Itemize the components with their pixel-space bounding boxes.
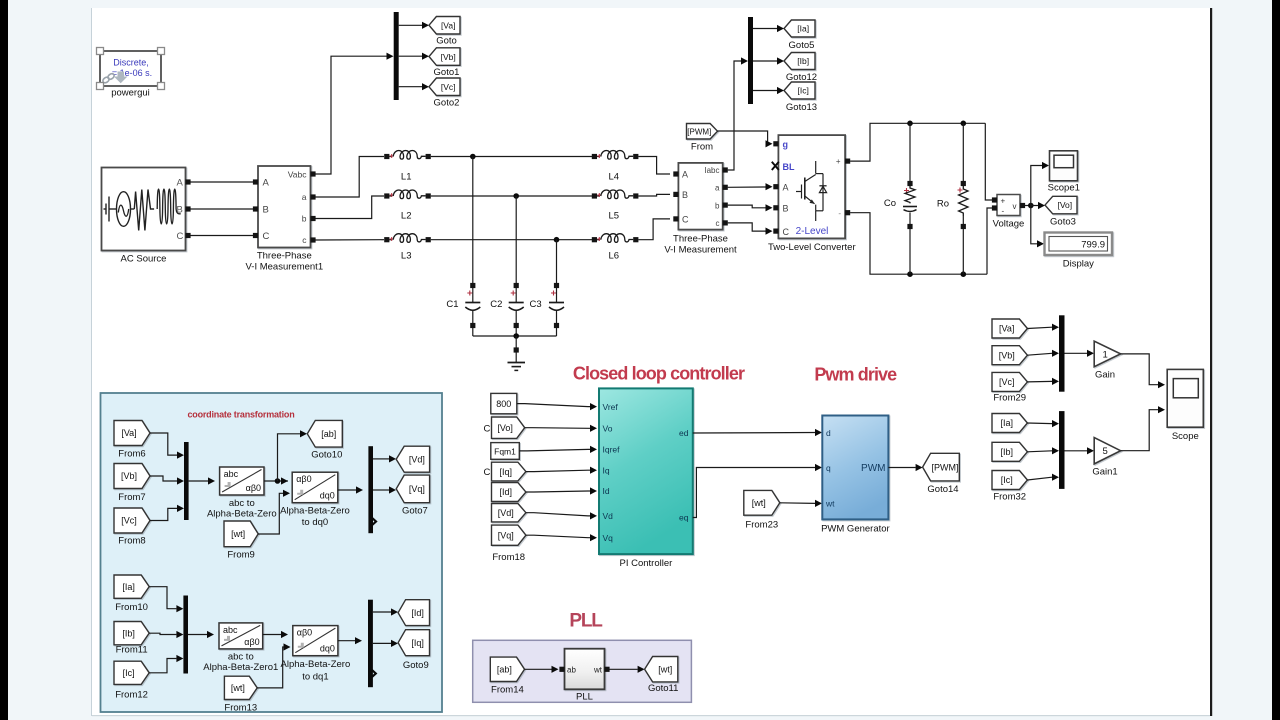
wire node to Scope1 <box>1031 162 1049 206</box>
svg-text:[Vd]: [Vd] <box>498 508 514 518</box>
svg-text:b: b <box>302 214 307 224</box>
svg-text:From9: From9 <box>227 550 254 561</box>
wire From29 Vb to mux <box>1027 350 1059 357</box>
goto tag [Vo] (Goto3) <box>1045 196 1077 227</box>
svg-text:BL: BL <box>783 162 795 172</box>
wire From11 to mux2 <box>149 631 183 638</box>
svg-text:Alpha-Beta-Zero: Alpha-Beta-Zero <box>207 508 277 519</box>
wire capacitor common node <box>473 333 557 339</box>
PLL area box <box>473 640 692 702</box>
svg-text:g: g <box>783 140 789 150</box>
svg-text:a: a <box>302 192 307 202</box>
from tag [wt] (From9) <box>224 521 258 561</box>
wire L5 to measurement B <box>638 194 670 196</box>
svg-text:[ab]: [ab] <box>321 429 336 439</box>
gain block (Gain1, value 5) <box>1092 438 1120 478</box>
svg-text:B: B <box>177 205 183 216</box>
from tag [Ia] (From10) <box>114 575 149 613</box>
svg-text:abc to: abc to <box>228 652 254 663</box>
right black bar <box>1272 0 1280 720</box>
wire From32 Ic to mux <box>1027 474 1059 481</box>
svg-text:PWM Generator: PWM Generator <box>821 524 890 535</box>
svg-text:From8: From8 <box>118 536 145 547</box>
svg-text:Three-Phase: Three-Phase <box>257 251 312 262</box>
svg-text:Vabc: Vabc <box>288 169 307 179</box>
from tag [Ib] (From32 b) <box>992 442 1027 461</box>
wire [Vd] to Vd <box>526 512 597 519</box>
wire demux to Goto13 Ic <box>753 87 784 94</box>
wire b to converter B <box>728 204 773 211</box>
from tag [Vq] (input column) <box>492 525 526 563</box>
wire From32 Ia to mux <box>1027 420 1059 427</box>
svg-text:L2: L2 <box>401 211 412 222</box>
svg-text:Alpha-Beta-Zero: Alpha-Beta-Zero <box>280 506 350 517</box>
goto tag [Id] <box>398 600 429 626</box>
abc to Alpha-Beta-Zero1 block <box>203 623 278 673</box>
wire From23 to PWM generator wt <box>780 500 822 507</box>
svg-text:+: + <box>836 157 841 166</box>
svg-text:1: 1 <box>1103 349 1108 360</box>
svg-text:[wt]: [wt] <box>752 498 766 508</box>
wire demux to Goto Va <box>399 22 429 29</box>
goto tag [Vb] (Goto1) <box>429 48 460 78</box>
from tag [Ia] (From32 a) <box>992 414 1027 433</box>
svg-text:C: C <box>783 227 790 237</box>
wire C3 branch from phase C <box>556 240 558 283</box>
wire From8 to mux1 <box>150 505 184 521</box>
svg-text:A: A <box>263 178 270 189</box>
inductor L2 <box>384 190 431 222</box>
svg-text:Three-Phase: Three-Phase <box>673 234 728 245</box>
svg-text:From7: From7 <box>118 492 145 503</box>
svg-text:Closed loop controller: Closed loop controller <box>573 364 745 384</box>
svg-text:A: A <box>177 178 184 189</box>
svg-text:[Iq]: [Iq] <box>499 467 512 477</box>
svg-text:dq0: dq0 <box>320 491 335 501</box>
wire mux2 to abc-Alpha-Beta-Zero1 <box>188 631 214 638</box>
svg-text:c: c <box>716 219 720 228</box>
svg-text:Alpha-Beta-Zero1: Alpha-Beta-Zero1 <box>203 662 278 673</box>
wire mux to Gain1 <box>1065 447 1095 454</box>
svg-text:Goto7: Goto7 <box>402 506 428 517</box>
wire voltage output node <box>1025 203 1034 209</box>
svg-text:L4: L4 <box>609 172 620 183</box>
wire Vabc to voltage demux <box>316 53 394 174</box>
svg-text:[wt]: [wt] <box>658 664 672 674</box>
svg-text:[Ia]: [Ia] <box>1000 418 1013 428</box>
wire [Iq] to Iq <box>526 467 597 474</box>
svg-text:b: b <box>715 201 720 210</box>
goto tag [Iq] (Goto9) <box>398 630 429 671</box>
from tag [Vc] (From8) <box>114 508 150 547</box>
svg-text:From13: From13 <box>224 703 257 714</box>
wire eq to PWM generator q <box>693 464 822 518</box>
wire converter - to DC bottom rail <box>850 213 987 277</box>
svg-text:[Vd]: [Vd] <box>409 454 425 464</box>
from tag [Vc] (From29 c) <box>992 372 1027 403</box>
svg-text:B: B <box>682 190 688 200</box>
svg-text:Alpha-Beta-Zero: Alpha-Beta-Zero <box>281 659 351 670</box>
svg-text:ab: ab <box>567 666 576 675</box>
svg-text:5: 5 <box>1103 446 1108 457</box>
svg-text:L1: L1 <box>401 172 412 183</box>
goto tag [Vd] <box>396 446 429 472</box>
wire mux1 to abc-Alpha-Beta-Zero <box>189 477 215 484</box>
goto tag [ab] (Goto10) <box>307 420 342 460</box>
PLL block <box>559 649 609 703</box>
from block Fqm1 <box>491 443 520 460</box>
voltage abc mux bar <box>184 442 189 520</box>
svg-text:[Vb]: [Vb] <box>999 350 1015 360</box>
Alpha-Beta-Zero to dq1 block <box>281 626 351 683</box>
svg-text:800: 800 <box>496 399 511 409</box>
svg-text:[ab]: [ab] <box>497 665 512 675</box>
wire C1 branch from phase A <box>472 157 474 284</box>
svg-text:a: a <box>715 184 720 193</box>
hidden constant C label 2 <box>484 467 491 478</box>
scope1 block <box>1048 151 1080 194</box>
svg-text:Id: Id <box>603 486 610 496</box>
from tag [Ic] (From32 c) <box>992 471 1027 503</box>
wire Gain1 to Scope input 2 <box>1121 406 1165 451</box>
gain block (Gain, value 1) <box>1094 341 1120 380</box>
wire mux to Gain <box>1065 350 1095 357</box>
svg-text:[wt]: [wt] <box>231 529 245 539</box>
scope block <box>1167 369 1203 442</box>
from tag [Va] (From6) <box>114 421 150 460</box>
svg-text:2-Level: 2-Level <box>796 226 829 237</box>
svg-text:Iqref: Iqref <box>603 445 621 455</box>
Alpha-Beta-Zero to dq0 block <box>280 472 350 528</box>
svg-text:PLL: PLL <box>576 692 593 703</box>
svg-text:wt: wt <box>825 499 835 509</box>
goto tag [wt] (Goto11) <box>645 657 679 695</box>
svg-text:[Vc]: [Vc] <box>441 82 456 92</box>
from tag [Vd] (input column) <box>492 504 526 522</box>
svg-text:Scope1: Scope1 <box>1048 183 1080 194</box>
svg-text:[Ib]: [Ib] <box>122 628 135 638</box>
svg-text:From12: From12 <box>115 690 148 701</box>
svg-text:PWM: PWM <box>861 463 885 474</box>
svg-text:C: C <box>263 231 270 242</box>
svg-text:[Vq]: [Vq] <box>409 484 425 494</box>
svg-text:Goto2: Goto2 <box>434 98 460 109</box>
inductor L1 <box>384 151 431 183</box>
wire From PWM to converter gate <box>718 131 773 147</box>
wire From29 Va to mux <box>1027 324 1059 331</box>
svg-text:[Vb]: [Vb] <box>441 52 456 62</box>
goto tag [Va] (Goto) <box>429 17 460 47</box>
wire From7 to mux1 <box>150 476 184 485</box>
svg-text:PLL: PLL <box>569 611 603 632</box>
from tag [PWM] (From) <box>687 124 718 153</box>
svg-text:abc: abc <box>223 625 238 635</box>
svg-text:Goto10: Goto10 <box>311 450 342 461</box>
wire From10 to mux2 <box>149 587 183 613</box>
svg-text:C: C <box>682 215 689 225</box>
svg-text:Discrete,: Discrete, <box>113 58 149 68</box>
voltage measurement block <box>992 195 1025 230</box>
wire DC top rail to voltage + input <box>985 123 992 200</box>
svg-text:From18: From18 <box>492 552 525 563</box>
svg-text:Vref: Vref <box>603 402 619 412</box>
svg-text:-: - <box>838 209 841 218</box>
svg-text:wt: wt <box>593 666 603 675</box>
goto tag [Vc] (Goto2) <box>429 78 460 109</box>
constant block 800 <box>491 393 517 413</box>
two-level converter block (U1) <box>768 135 856 253</box>
inductor L6 <box>592 234 639 262</box>
wire dq0 to demux1 <box>338 486 363 493</box>
svg-text:V-I Measurement1: V-I Measurement1 <box>245 262 323 273</box>
svg-text:[Ia]: [Ia] <box>122 582 135 592</box>
voltage mux bar <box>1059 315 1065 391</box>
svg-text:A: A <box>682 170 688 180</box>
svg-text:L3: L3 <box>401 251 412 262</box>
AC source block <box>102 168 191 265</box>
svg-text:C2: C2 <box>490 299 502 310</box>
svg-text:Display: Display <box>1063 259 1094 270</box>
svg-text:Fqm1: Fqm1 <box>494 446 516 456</box>
svg-text:Ro: Ro <box>937 198 949 209</box>
wire Alpha-Beta-Zero output node <box>264 477 288 484</box>
from tag [ab] (From14) <box>490 657 524 695</box>
svg-text:[Id]: [Id] <box>499 487 512 497</box>
svg-text:[Iq]: [Iq] <box>411 638 424 648</box>
wire node to Goto3 <box>1031 202 1045 209</box>
PWM generator block <box>821 416 890 535</box>
svg-text:Goto5: Goto5 <box>789 40 815 51</box>
svg-text:coordinate transformation: coordinate transformation <box>187 410 294 420</box>
PI controller block <box>599 388 693 569</box>
abc to Alpha-Beta-Zero block <box>207 467 277 519</box>
wire From29 Vc to mux <box>1027 378 1059 385</box>
svg-text:From11: From11 <box>116 645 148 656</box>
wire phase B rail <box>431 193 592 199</box>
svg-text:αβ0: αβ0 <box>244 637 259 647</box>
svg-text:abc: abc <box>224 469 239 479</box>
svg-text:Goto14: Goto14 <box>927 484 958 495</box>
svg-text:αβ0: αβ0 <box>297 628 312 638</box>
svg-text:C: C <box>484 467 491 478</box>
svg-text:+: + <box>1001 197 1006 206</box>
wire demux1 to Goto [Vq] <box>373 486 396 493</box>
wire phase c to L3 <box>316 239 385 241</box>
wire demux to Goto5 Ia <box>753 25 784 32</box>
svg-text:From14: From14 <box>491 685 524 696</box>
capacitor C2 <box>490 283 523 336</box>
wire demux to Goto1 Vb <box>399 53 429 60</box>
left black bar <box>0 0 8 720</box>
goto tag [Ic] (Goto13) <box>784 82 817 113</box>
svg-text:d: d <box>826 428 831 438</box>
svg-text:[Ib]: [Ib] <box>797 56 809 66</box>
svg-text:[Va]: [Va] <box>999 324 1014 334</box>
wire a to converter A <box>728 183 773 190</box>
svg-text:V-I Measurement: V-I Measurement <box>664 245 737 256</box>
goto tag [Ia] (Goto5) <box>784 20 815 51</box>
svg-text:[Id]: [Id] <box>411 608 424 618</box>
svg-text:From23: From23 <box>745 520 778 531</box>
wire PLL to Goto11 <box>610 666 645 673</box>
wire phase C rail <box>431 237 592 243</box>
svg-text:From10: From10 <box>115 602 148 613</box>
ground <box>508 336 526 370</box>
wire From6 to mux1 <box>150 433 184 459</box>
display block showing 799.9 <box>1045 233 1113 270</box>
wire [Vq] to Vq <box>526 534 597 541</box>
svg-text:[Vo]: [Vo] <box>497 423 513 433</box>
resistor Ro branch <box>937 123 968 274</box>
wire From9 to dq0 angle input <box>258 490 290 534</box>
svg-text:αβ0: αβ0 <box>296 474 311 484</box>
wire [Vo] to Vo <box>525 425 597 432</box>
svg-text:[PWM]: [PWM] <box>932 462 959 472</box>
svg-text:eq: eq <box>679 513 689 523</box>
goto tag [PWM] (Goto14) <box>923 453 960 495</box>
wire phase A AC source to measurement1 <box>191 181 254 183</box>
svg-text:From32: From32 <box>993 492 1026 503</box>
svg-text:A: A <box>783 183 789 193</box>
current demux bar <box>748 17 753 104</box>
goto tag [Vq] (Goto7) <box>396 475 429 516</box>
svg-text:C: C <box>484 424 491 435</box>
svg-text:Voltage: Voltage <box>993 219 1025 230</box>
wire Gain to Scope input 1 <box>1121 354 1165 388</box>
svg-text:AC Source: AC Source <box>121 254 167 265</box>
current mux bar <box>1059 411 1065 489</box>
coordinate transformation area box <box>101 393 443 712</box>
id iq demux bar <box>368 600 376 688</box>
wire PWM to Goto14 <box>888 464 922 471</box>
svg-text:ed: ed <box>679 428 689 438</box>
svg-text:[PWM]: [PWM] <box>687 127 711 136</box>
svg-text:Goto13: Goto13 <box>786 102 817 113</box>
svg-text:Goto1: Goto1 <box>434 67 460 78</box>
vd vq demux bar <box>368 446 376 533</box>
svg-text:Vd: Vd <box>603 511 614 521</box>
from tag [Vb] (From29 b) <box>992 346 1027 365</box>
wire From12 to mux2 <box>149 655 183 673</box>
annotation: Closed loop controller <box>573 364 745 384</box>
svg-text:q: q <box>826 463 831 473</box>
svg-text:αβ0: αβ0 <box>246 483 261 493</box>
svg-text:From29: From29 <box>993 393 1026 404</box>
wire phase B AC source to measurement1 <box>191 208 254 210</box>
from tag [Ib] (From11) <box>114 622 149 656</box>
svg-text:L5: L5 <box>609 211 620 222</box>
annotation: coordinate transformation <box>187 410 294 420</box>
current abc mux bar <box>183 596 188 674</box>
wire node to Goto10 <box>278 430 308 481</box>
from tag [Iq] (input column) <box>492 462 526 481</box>
wire From32 Ib to mux <box>1027 447 1059 454</box>
wire node to Display <box>1031 206 1044 248</box>
wire ed to PWM generator d <box>693 429 822 436</box>
svg-text:v: v <box>1013 202 1017 211</box>
powergui block (selected) <box>97 48 165 99</box>
from tag [wt] (From13) <box>224 676 257 713</box>
svg-text:Pwm drive: Pwm drive <box>814 365 897 385</box>
svg-text:[Vc]: [Vc] <box>121 516 137 526</box>
svg-text:B: B <box>263 205 269 216</box>
annotation: PLL <box>569 611 603 632</box>
svg-text:[Ib]: [Ib] <box>1000 447 1013 457</box>
svg-text:Iabc: Iabc <box>704 166 719 175</box>
wire dq1 to demux2 <box>338 637 362 644</box>
svg-text:Gain: Gain <box>1095 370 1115 381</box>
from tag [Ic] (From12) <box>114 661 149 700</box>
svg-text:Two-Level Converter: Two-Level Converter <box>768 242 856 253</box>
wire demux2 to Goto [Id] <box>373 608 398 615</box>
svg-text:Vo: Vo <box>603 424 613 434</box>
svg-text:Goto11: Goto11 <box>648 683 678 694</box>
wire [Id] to Id <box>526 487 597 494</box>
wire phase b to L2 <box>316 196 385 219</box>
svg-text:Scope: Scope <box>1172 431 1199 442</box>
svg-text:Goto: Goto <box>436 36 457 47</box>
wire demux2 to Goto [Iq] <box>373 640 398 647</box>
svg-text:[Ic]: [Ic] <box>798 86 809 96</box>
svg-text:[Ic]: [Ic] <box>123 668 135 678</box>
svg-text:799.9: 799.9 <box>1081 240 1105 251</box>
svg-text:[Va]: [Va] <box>441 20 456 30</box>
wire Iabc to current demux <box>728 57 748 170</box>
wire From14 to PLL <box>525 666 559 673</box>
voltage demux bar <box>394 12 399 100</box>
capacitor C1 <box>446 283 480 336</box>
wire converter + to DC top rail <box>850 121 985 162</box>
wire Alpha-Beta-Zero1 to dq1 <box>263 631 288 638</box>
wire DC bottom rail to voltage - input <box>987 208 993 274</box>
svg-text:[Vc]: [Vc] <box>999 377 1015 387</box>
svg-text:L6: L6 <box>609 251 620 262</box>
svg-text:C: C <box>177 231 184 242</box>
svg-text:PI Controller: PI Controller <box>619 558 672 569</box>
goto tag [Ib] (Goto12) <box>784 53 817 84</box>
svg-text:C1: C1 <box>446 299 458 310</box>
capacitor C3 <box>530 283 564 336</box>
from tag [Vo] (input column) <box>492 417 525 438</box>
svg-text:Goto3: Goto3 <box>1050 217 1076 228</box>
svg-text:[Vo]: [Vo] <box>1057 200 1072 210</box>
annotation: Pwm drive <box>814 365 897 385</box>
svg-text:powergui: powergui <box>111 88 150 99</box>
svg-text:to dq0: to dq0 <box>302 517 328 528</box>
capacitor Co branch <box>884 123 917 274</box>
hidden constant C label 1 <box>484 424 491 435</box>
svg-text:-: - <box>1002 207 1005 216</box>
wire C2 branch from phase B <box>515 196 517 283</box>
from tag [Id] (input column) <box>492 483 526 502</box>
wire demux to Goto12 Ib <box>753 57 784 64</box>
wire demux to Goto2 Vc <box>399 83 429 90</box>
svg-text:[wt]: [wt] <box>231 683 245 693</box>
svg-text:B: B <box>783 204 789 214</box>
wire phase A rail <box>431 154 592 160</box>
svg-text:Gain1: Gain1 <box>1092 467 1117 478</box>
svg-text:[Va]: [Va] <box>121 428 136 438</box>
svg-text:Goto9: Goto9 <box>403 660 429 671</box>
wire demux1 to Goto [Vd] <box>373 455 396 462</box>
svg-text:C3: C3 <box>530 299 542 310</box>
svg-text:[Ia]: [Ia] <box>797 24 809 34</box>
wire From13 to dq1 angle input <box>257 643 290 688</box>
wire phase C AC source to measurement1 <box>191 235 254 237</box>
svg-text:dq0: dq0 <box>320 644 335 654</box>
inductor L3 <box>384 234 431 262</box>
wire 800 to Vref <box>517 403 597 410</box>
